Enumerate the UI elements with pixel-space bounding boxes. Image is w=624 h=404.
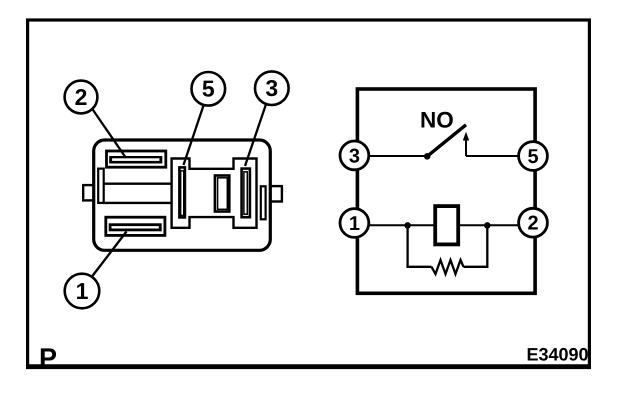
svg-text:1: 1 — [349, 213, 360, 235]
center keyway inner — [218, 178, 228, 210]
terminal slot pin 2 (top left) — [107, 151, 166, 167]
right keyway rib — [261, 186, 266, 219]
pin 2 blade — [109, 156, 162, 164]
center keyway outer — [215, 176, 229, 212]
svg-text:2: 2 — [75, 84, 88, 110]
pin 1 blade — [109, 223, 162, 231]
callout circle 1 — [65, 274, 100, 309]
left keyway rib — [98, 169, 104, 203]
terminal circle 1 — [340, 209, 369, 238]
svg-text:5: 5 — [202, 76, 215, 102]
svg-text:P: P — [39, 343, 57, 373]
resistor branch left drop — [408, 228, 432, 267]
junction dot left — [404, 222, 411, 229]
stepped pedestal outline — [172, 159, 257, 228]
pin 5 blade — [181, 171, 184, 216]
terminal circle 2 — [519, 208, 548, 237]
switch arm — [427, 125, 466, 157]
svg-text:3: 3 — [265, 75, 278, 101]
resistor zigzag — [432, 260, 464, 274]
svg-text:3: 3 — [349, 145, 360, 167]
wire terminal 1 to coil — [367, 224, 436, 226]
terminal slot pin 5 — [179, 167, 185, 217]
center rib bottom line — [103, 202, 171, 204]
svg-text:1: 1 — [76, 278, 89, 304]
leader line to pin 3 — [245, 104, 266, 166]
center rib top line — [103, 182, 171, 184]
svg-text:NO: NO — [420, 108, 454, 133]
relay coil — [435, 206, 458, 244]
terminal circle 3 — [340, 141, 369, 170]
relay body outline — [94, 140, 271, 250]
terminal circle 5 — [519, 142, 548, 171]
callout circle 2 — [65, 81, 98, 114]
wire switch to terminal 5 — [466, 155, 521, 157]
wire coil to terminal 2 — [457, 224, 521, 226]
schematic box — [357, 89, 535, 293]
leader line to pin 2 — [92, 109, 126, 159]
leader line to pin 1 — [92, 232, 127, 277]
wire terminal 3 to switch — [367, 155, 427, 157]
svg-text:2: 2 — [527, 213, 538, 235]
callout circle 5 — [192, 72, 226, 106]
switch arrow — [465, 138, 467, 156]
svg-text:E34090: E34090 — [527, 345, 589, 365]
pin 3 blade — [244, 172, 247, 214]
callout circle 3 — [255, 71, 289, 105]
leader line to pin 5 — [184, 106, 204, 166]
terminal slot pin 1 (bottom left) — [106, 217, 165, 235]
left mounting tab — [83, 185, 94, 200]
resistor branch right drop — [464, 228, 488, 267]
svg-text:5: 5 — [527, 146, 538, 168]
switch pivot junction — [424, 153, 431, 160]
right mounting tab — [270, 186, 282, 201]
terminal slot pin 3 — [242, 169, 250, 218]
junction dot right — [484, 222, 491, 229]
